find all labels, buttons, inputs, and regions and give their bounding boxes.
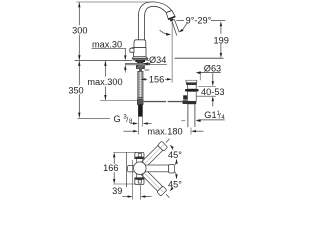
rod ball joint housing <box>183 95 187 99</box>
svg-text:166: 166 <box>103 163 118 173</box>
leader 45 top <box>171 147 173 149</box>
leader 9-29 <box>183 22 188 29</box>
base skirt <box>132 57 147 59</box>
pop-up rod <box>144 101 166 102</box>
dim 156 extension (outlet centerline) <box>171 21 173 82</box>
deck top line left <box>75 59 132 61</box>
swivel arc arrow <box>160 30 167 34</box>
neck under nut <box>139 69 142 72</box>
dim 350 extension bottom <box>77 117 110 119</box>
faucet body <box>133 48 146 57</box>
plan view spout horizontal <box>144 165 169 172</box>
flexible hose <box>138 71 143 97</box>
plan swivel arc top <box>175 160 177 165</box>
aerator tip <box>166 10 175 19</box>
9-29 level line right <box>211 20 225 22</box>
dim 350 line <box>78 61 80 85</box>
tick right of nut <box>145 69 150 71</box>
plan view top square <box>135 152 144 158</box>
dim max300 extension <box>100 100 137 102</box>
40-53 extension lines <box>198 85 216 87</box>
svg-text:300: 300 <box>72 25 87 35</box>
jet direction line 9deg <box>172 20 177 36</box>
svg-text:G1: G1 <box>204 110 216 120</box>
dim 166 line <box>113 154 115 164</box>
dim O63 leader <box>200 72 221 74</box>
waste flange body <box>187 85 196 89</box>
pop-up waste plug rim <box>185 80 187 82</box>
plan view diagonal spout lower <box>141 170 167 196</box>
plan handle stub left <box>128 166 135 172</box>
dim 39 <box>122 196 127 198</box>
svg-text:Ø63: Ø63 <box>204 64 221 74</box>
9-29 level line left <box>177 20 184 22</box>
dim G3/8 arrows <box>130 123 133 125</box>
leader 45 bottom <box>171 187 173 189</box>
dim 40-53 <box>212 73 214 81</box>
deck top line right stub <box>148 59 149 61</box>
svg-text:45°: 45° <box>168 150 182 160</box>
mounting nut <box>136 65 144 69</box>
svg-text:39: 39 <box>112 186 122 196</box>
svg-text:45°: 45° <box>168 180 182 190</box>
spout outer arc <box>138 2 171 16</box>
basin rim reference line right <box>175 57 224 59</box>
svg-text:max.30: max.30 <box>92 39 122 49</box>
waste body <box>187 91 196 101</box>
plan view neck lines <box>136 159 138 163</box>
dim max300 line <box>104 61 106 77</box>
plan swivel arc bottom <box>175 172 177 177</box>
dim max30 lower arrow <box>124 65 126 70</box>
svg-text:199: 199 <box>214 35 229 45</box>
stud extension lines <box>137 117 139 135</box>
threaded shank <box>137 60 144 63</box>
spout inner arc <box>145 6 167 16</box>
plan view diagonal spout upper <box>142 141 168 167</box>
dim O34 leader <box>146 64 167 66</box>
waste lower nut dark <box>187 101 197 104</box>
max180 right extension <box>190 128 192 135</box>
base plate dark <box>133 59 148 61</box>
svg-text:G: G <box>114 114 121 124</box>
dim max180 <box>123 130 133 132</box>
dim 156 <box>141 78 146 80</box>
waste seal ring dark <box>185 89 198 91</box>
dim max30 leader <box>92 48 127 50</box>
rod end connector <box>183 100 188 104</box>
plan view body circle <box>134 162 147 175</box>
basin stub line <box>181 120 185 122</box>
dim 199 line <box>220 26 222 34</box>
handle knob <box>130 48 134 52</box>
dim 39 extensions <box>132 160 134 200</box>
G3/8 stud <box>138 104 143 116</box>
svg-text:max.180: max.180 <box>147 127 182 137</box>
svg-text:Ø34: Ø34 <box>149 55 166 65</box>
locknut band dark <box>135 60 145 62</box>
svg-text:156: 156 <box>149 74 164 84</box>
cartridge housing <box>134 40 146 48</box>
svg-text:40-53: 40-53 <box>201 87 225 97</box>
svg-text:350: 350 <box>68 85 83 95</box>
washer <box>126 63 150 64</box>
tailpipe <box>187 104 189 127</box>
plan view bottom square <box>135 178 144 185</box>
hose end fitting <box>137 99 143 105</box>
svg-text:max.300: max.300 <box>87 77 122 87</box>
dim 300 line <box>78 2 80 25</box>
waste flange dark top <box>186 82 197 84</box>
dim 300 extension top <box>76 1 150 3</box>
plan left boundary line <box>125 152 127 187</box>
jet direction line 29deg <box>174 19 179 32</box>
dim G1 1/4 leader <box>198 119 225 121</box>
svg-text:9°-29°: 9°-29° <box>186 16 212 26</box>
spout column <box>137 16 139 41</box>
dim 166 extensions <box>113 151 136 153</box>
